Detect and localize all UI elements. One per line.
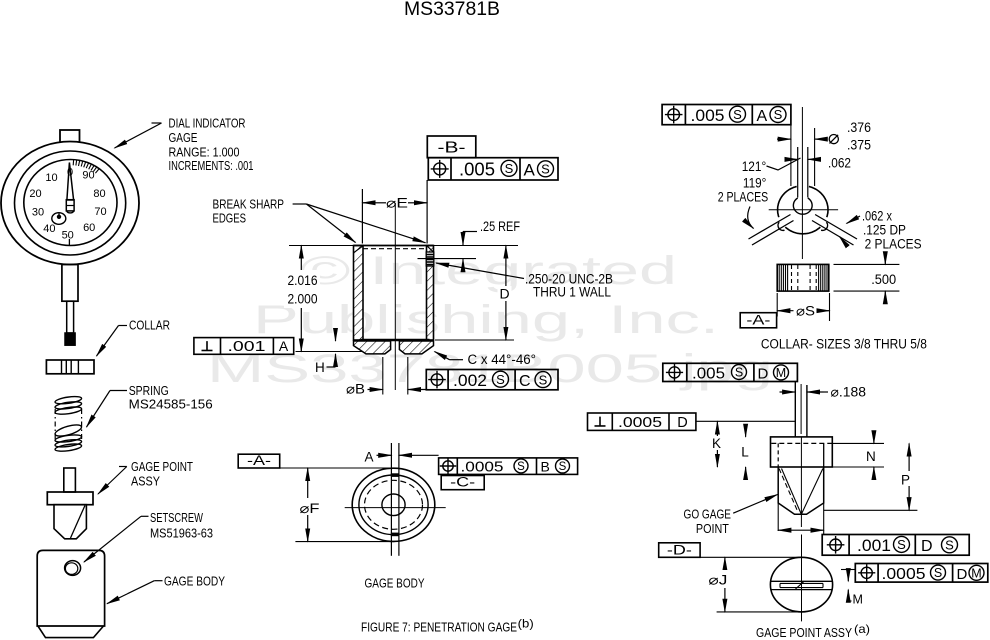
svg-text:-A-: -A-: [247, 453, 271, 468]
leader to right corner: [306, 204, 425, 243]
svg-text:S: S: [735, 366, 743, 380]
svg-text:S: S: [897, 537, 906, 552]
feature control frame perp .001 A: [194, 338, 294, 355]
top rim solid edge: [354, 245, 434, 247]
slot lines: [771, 580, 833, 582]
dimension dia S: [776, 293, 778, 317]
svg-text:MS24585-156: MS24585-156: [129, 398, 213, 412]
svg-text:90: 90: [82, 170, 94, 182]
svg-text:60: 60: [83, 222, 95, 234]
svg-text:COLLAR- SIZES 3/8 THRU 5/8: COLLAR- SIZES 3/8 THRU 5/8: [761, 337, 927, 352]
spring MS24585-156: [55, 395, 82, 405]
svg-text:.125 DP: .125 DP: [863, 223, 906, 238]
collar circle (end view): [827, 210, 828, 217]
dimension dia B extension lines: [382, 357, 384, 395]
wire extension line left for dia E: [361, 189, 363, 244]
cone width dimension: [777, 503, 779, 531]
svg-text:A: A: [365, 450, 374, 465]
dimension H: [335, 333, 337, 341]
svg-text:GAGE BODY: GAGE BODY: [365, 576, 425, 591]
stem center line: [800, 384, 802, 434]
svg-text:⌀E: ⌀E: [386, 195, 408, 210]
svg-text:.0005: .0005: [618, 414, 662, 431]
svg-text:S: S: [539, 372, 548, 387]
thread hole in right wall: [426, 252, 434, 266]
svg-text:50: 50: [62, 230, 74, 242]
feature control frame .0005 S B S: [439, 458, 578, 475]
gage point flange rect: [771, 437, 833, 467]
svg-text:SPRING: SPRING: [129, 384, 169, 398]
collar (exploded view): [46, 360, 94, 374]
gage body section right wall (hatched): [427, 246, 434, 341]
svg-text:S: S: [774, 107, 783, 122]
svg-text:MS51963-63: MS51963-63: [150, 527, 213, 541]
top edge extension to the right: [434, 245, 519, 247]
gage point stem lines: [794, 382, 796, 437]
svg-text:S: S: [505, 161, 514, 176]
dimension N: [832, 442, 884, 444]
top tangent line: [280, 467, 395, 469]
extension line from FCF: [790, 125, 792, 186]
gage body (exploded view): [37, 550, 104, 626]
svg-text:⌀B: ⌀B: [346, 382, 365, 397]
vertical center line: [801, 535, 803, 622]
svg-text:K: K: [712, 436, 721, 451]
cone left edge (hidden in flange): [777, 443, 779, 467]
svg-text:FIGURE 7: PENETRATION GAGE: FIGURE 7: PENETRATION GAGE: [361, 620, 517, 635]
svg-text:.376: .376: [847, 120, 871, 135]
heavy bore bottom line: [361, 339, 430, 342]
dimension D: [505, 246, 507, 341]
feature control frame .0005 S D M (slot): [855, 564, 988, 583]
svg-text:C: C: [519, 373, 531, 390]
svg-text:POINT: POINT: [696, 522, 729, 536]
svg-text:ASSY: ASSY: [131, 475, 161, 489]
svg-text:.062: .062: [828, 156, 851, 171]
thread hole center line: [418, 258, 477, 260]
feature control frame .001 S D S: [822, 535, 969, 556]
svg-text:121°: 121°: [742, 159, 767, 174]
svg-text:(a): (a): [854, 622, 870, 636]
datum flag -B-: [427, 136, 476, 158]
feature control frame .002 S C S: [426, 370, 558, 390]
top tangent line to point circle: [700, 556, 801, 558]
svg-text:S: S: [541, 161, 550, 176]
svg-text:D: D: [758, 366, 769, 383]
datum flag -C-: [441, 476, 484, 490]
feature control frame .005 S D M: [663, 363, 798, 381]
svg-text:119°: 119°: [743, 176, 767, 191]
gage stem rod: [67, 301, 74, 333]
dimension P: [824, 509, 917, 511]
gage body section left wall (hatched): [354, 246, 364, 341]
hidden dashed line in flange: [771, 442, 831, 444]
slot notch arcs: [778, 222, 784, 230]
right foot (hatched): [399, 341, 433, 354]
dial indicator gage outer bezel: [1, 142, 139, 265]
svg-text:GAGE POINT ASSY: GAGE POINT ASSY: [756, 625, 852, 640]
leader from perp FCF to stem: [696, 420, 795, 422]
svg-text:-D-: -D-: [667, 542, 692, 557]
dimension K: [716, 421, 718, 467]
svg-text:.500: .500: [871, 272, 896, 287]
dimension M: [841, 569, 856, 571]
dimension .376/.375 arrows: [777, 138, 791, 140]
svg-text:EDGES: EDGES: [213, 212, 247, 226]
slot edge ticks: [391, 473, 400, 477]
dial sub-dial: [52, 213, 66, 225]
svg-text:-B-: -B-: [438, 140, 466, 157]
svg-text:N: N: [866, 449, 876, 464]
datum flag -A- (collar): [740, 313, 776, 328]
horizontal center line: [769, 209, 838, 211]
svg-text:S: S: [517, 461, 525, 473]
svg-text:A: A: [524, 161, 536, 180]
top corner chamfer lines: [354, 246, 362, 252]
svg-text:⌀F: ⌀F: [300, 501, 320, 516]
dimension dia J: [724, 557, 726, 612]
dial minor ticks: [72, 160, 74, 165]
svg-text:A: A: [757, 108, 768, 125]
svg-text:10: 10: [45, 172, 57, 184]
dimension .062: [786, 158, 798, 160]
dial indicator gage top lug: [60, 130, 80, 142]
svg-text:MS33781B: MS33781B: [404, 0, 500, 20]
svg-text:S: S: [945, 537, 954, 552]
vertical center line: [801, 107, 803, 259]
svg-text:D: D: [957, 566, 968, 583]
svg-text:-C-: -C-: [450, 475, 475, 490]
feature control frame perp .0005 D: [588, 413, 696, 430]
dimension L: [745, 425, 747, 437]
dimension dia E: [362, 202, 375, 204]
svg-text:A: A: [279, 338, 289, 354]
gage point assy body/point: [54, 505, 86, 539]
svg-text:(b): (b): [518, 617, 534, 631]
svg-text:20: 20: [29, 188, 41, 200]
gage point assy stem: [64, 468, 76, 492]
angled slot left: [749, 215, 791, 240]
svg-text:INCREMENTS: .001: INCREMENTS: .001: [169, 159, 254, 173]
svg-text:.0005: .0005: [882, 566, 926, 583]
svg-text:M: M: [776, 366, 786, 380]
svg-text:2 PLACES: 2 PLACES: [718, 190, 769, 205]
svg-text:S: S: [496, 372, 505, 387]
dial indicator gage inner bezel ring: [15, 151, 126, 255]
svg-text:L: L: [741, 445, 749, 460]
svg-text:40: 40: [43, 223, 55, 235]
svg-text:2 PLACES: 2 PLACES: [865, 237, 922, 252]
extension line right (datum B): [426, 180, 428, 244]
cone outline: [778, 467, 824, 514]
dimension .500: [834, 263, 900, 265]
gage body bottom foot: [38, 626, 104, 638]
slot walls: [797, 147, 799, 198]
svg-text:S: S: [559, 461, 567, 473]
center hole: [793, 198, 812, 214]
svg-text:30: 30: [32, 207, 44, 219]
vertical slot lines: [390, 443, 392, 556]
cone interior lines: [779, 469, 798, 512]
svg-text:B: B: [541, 459, 550, 475]
dial indicator gage dial face circle: [24, 160, 117, 246]
dial needle hub: [66, 200, 74, 211]
svg-text:⌀.188: ⌀.188: [831, 385, 867, 400]
leader to left corner: [306, 204, 355, 243]
svg-text:RANGE: 1.000: RANGE: 1.000: [169, 146, 240, 160]
svg-text:GO GAGE: GO GAGE: [684, 508, 732, 522]
svg-text:70: 70: [94, 206, 106, 218]
datum flag -D-: [659, 543, 700, 558]
angled slot right: [815, 215, 857, 240]
svg-text:M: M: [853, 593, 863, 607]
bottom tangent line: [717, 611, 802, 613]
gage stem contact tip: [65, 333, 75, 345]
svg-text:P: P: [901, 473, 910, 488]
svg-text:-A-: -A-: [746, 313, 770, 328]
svg-text:GAGE: GAGE: [169, 131, 198, 145]
svg-text:⌀J: ⌀J: [708, 573, 727, 588]
center line of cylinder: [394, 203, 396, 390]
svg-text:.062 x: .062 x: [862, 209, 892, 224]
svg-text:COLLAR: COLLAR: [129, 319, 170, 333]
leader to dial: [152, 122, 162, 124]
svg-text:D: D: [677, 415, 687, 431]
top rim hidden dashed line: [363, 248, 427, 250]
svg-text:.375: .375: [847, 138, 871, 153]
feature control frame .005 S A S (datum B view): [428, 158, 558, 180]
svg-text:DIAL INDICATOR: DIAL INDICATOR: [169, 117, 246, 131]
bottom tangent line: [295, 541, 394, 543]
extension line right of slot: [814, 128, 816, 186]
svg-text:GAGE POINT: GAGE POINT: [131, 460, 193, 474]
dimension dia F: [307, 468, 309, 542]
svg-text:.001: .001: [228, 339, 266, 355]
svg-text:H: H: [315, 360, 325, 375]
svg-text:S: S: [934, 566, 942, 580]
svg-text:2.016: 2.016: [288, 272, 318, 288]
svg-text:SETSCREW: SETSCREW: [150, 511, 203, 525]
collar side view: [777, 264, 829, 291]
svg-text:S: S: [733, 107, 742, 122]
svg-text:C x 44°-46°: C x 44°-46°: [468, 352, 537, 367]
svg-text:M: M: [971, 566, 981, 580]
horizontal center line: [345, 507, 446, 509]
svg-text:D: D: [499, 286, 509, 302]
gage point assy end circle: [770, 557, 832, 612]
feature control frame .005 S A S (collar): [662, 105, 791, 125]
setscrew MS51963-63: [65, 561, 81, 576]
svg-text:D: D: [921, 538, 933, 555]
svg-text:⌀S: ⌀S: [796, 304, 815, 319]
svg-text:.25 REF: .25 REF: [480, 219, 520, 234]
svg-text:.002: .002: [453, 371, 487, 390]
svg-text:.005: .005: [691, 106, 725, 125]
svg-text:THRU 1 WALL: THRU 1 WALL: [533, 285, 611, 300]
gage point assy flange: [47, 492, 93, 505]
left foot (hatched): [354, 341, 391, 354]
gage body circles: [352, 468, 435, 541]
svg-text:.0005: .0005: [461, 459, 504, 476]
svg-text:2.000: 2.000: [288, 291, 318, 307]
svg-text:.001: .001: [857, 536, 891, 555]
gage stem housing: [62, 265, 78, 302]
svg-text:BREAK SHARP: BREAK SHARP: [213, 198, 285, 212]
cone center line: [800, 437, 802, 527]
dimension dia .188: [780, 391, 796, 393]
svg-text:.005: .005: [459, 159, 495, 180]
svg-text:80: 80: [93, 188, 105, 200]
svg-text:GAGE BODY: GAGE BODY: [164, 575, 226, 589]
dial needle: [67, 163, 74, 201]
svg-text:.005: .005: [692, 366, 725, 383]
svg-text:Publishing, Inc.: Publishing, Inc.: [253, 298, 719, 342]
dial bottom tick: [68, 239, 70, 246]
datum flag -A- (gage body view): [238, 454, 280, 468]
bottom extension line: [296, 351, 363, 353]
